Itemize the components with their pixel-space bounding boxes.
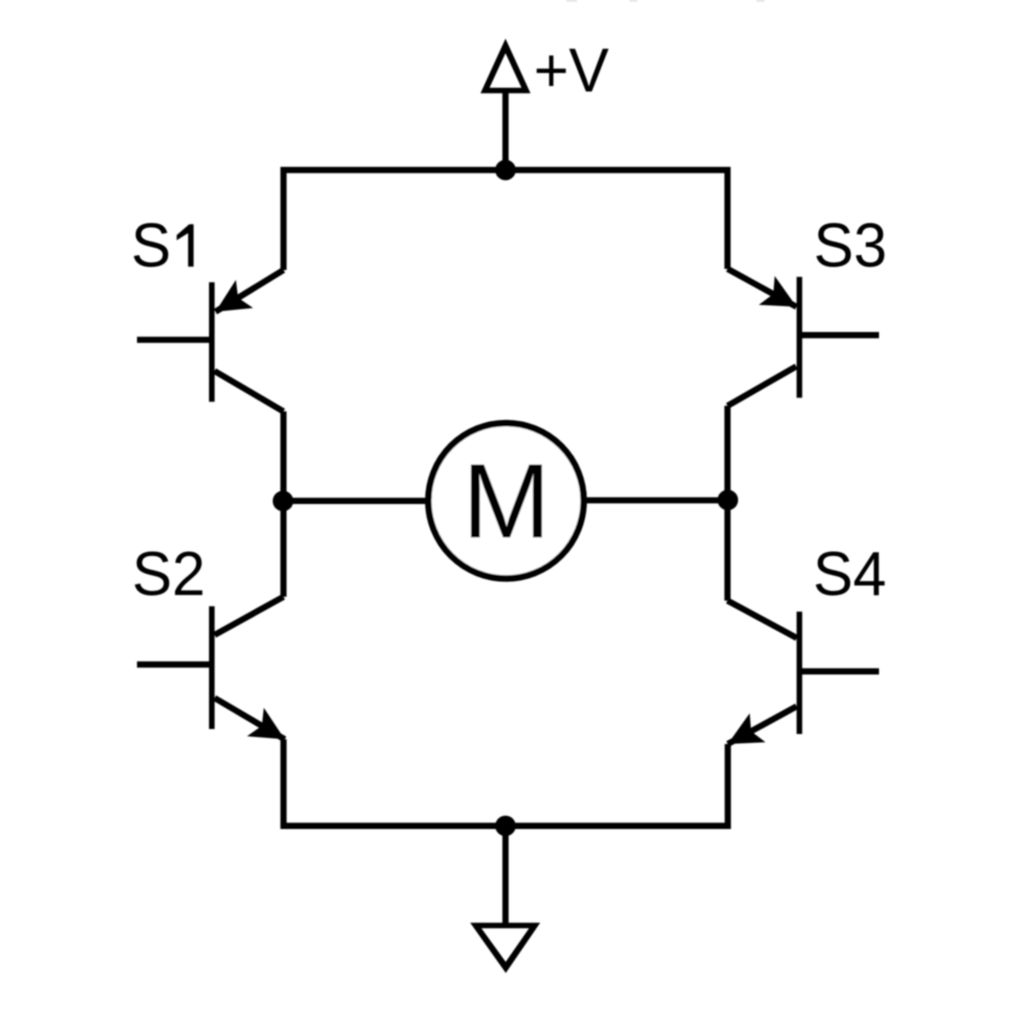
transistor S4 emitter arrowhead — [728, 713, 766, 744]
transistor S1 base lead — [137, 337, 212, 343]
transistor S3 base lead — [799, 332, 879, 338]
wire motor right lead — [584, 497, 728, 503]
top edge artifact marks — [567, 0, 765, 2]
transistor S4 base lead — [799, 668, 879, 674]
transistor S4 emitter wire — [728, 706, 797, 744]
wire motor left lead — [284, 498, 429, 504]
junction dot bottom — [495, 816, 516, 837]
wire right mid vertical — [724, 406, 730, 601]
transistor S4 base bar — [797, 612, 803, 734]
svg-text:S: S — [131, 210, 171, 279]
transistor S1 emitter arrowhead — [216, 280, 254, 312]
wire +V stem — [502, 90, 508, 170]
wire top rail with left and right drops — [284, 170, 728, 270]
transistor S1 collector wire — [215, 371, 284, 411]
wire left mid vertical — [280, 411, 286, 596]
transistor S1 base bar — [209, 282, 215, 402]
svg-text:S3: S3 — [814, 210, 887, 279]
wire ground stem — [502, 826, 508, 924]
wire bottom rail with left and right risers — [284, 739, 728, 826]
transistor S4 collector wire — [728, 601, 797, 638]
svg-text:S4: S4 — [813, 539, 886, 608]
svg-text:+V: +V — [534, 36, 609, 105]
transistor S2 base bar — [209, 606, 215, 729]
svg-text:S2: S2 — [132, 539, 205, 608]
svg-text:M: M — [462, 442, 550, 560]
transistor S2 emitter wire — [215, 698, 285, 739]
power +V triangle — [481, 39, 531, 94]
transistor S2 emitter arrowhead — [247, 708, 285, 740]
junction dot right — [718, 490, 739, 511]
transistor S3 collector wire — [728, 366, 797, 405]
label S1 digit 1 — [177, 224, 194, 266]
transistor S3 emitter arrowhead — [759, 276, 797, 307]
junction dot top — [495, 160, 516, 181]
ground triangle — [470, 923, 540, 973]
transistor S2 base lead — [137, 661, 212, 667]
transistor S2 collector wire — [215, 597, 284, 635]
junction dot left — [273, 491, 294, 512]
transistor S3 base bar — [797, 277, 803, 398]
transistor S1 emitter wire — [216, 270, 284, 312]
transistor S3 emitter wire — [728, 269, 797, 307]
motor M circle — [428, 423, 583, 578]
